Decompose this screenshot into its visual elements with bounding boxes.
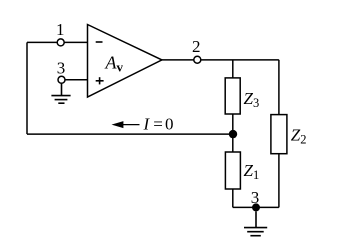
- wire: feedback horizontal wire to junction: [27, 133, 233, 135]
- wire: stub from output wire down to Z3: [232, 60, 234, 78]
- impedance Z2 box: [271, 115, 287, 154]
- node 1 terminal circle: [57, 39, 64, 46]
- svg-text:3: 3: [57, 58, 66, 77]
- impedance Z3 box: [225, 78, 240, 114]
- ground (bottom, under node 3): [244, 211, 267, 235]
- impedance Z1 box: [225, 152, 240, 189]
- wire: output wire from op-amp apex to right branch: [162, 59, 279, 61]
- wire: stub from Z3 through junction to Z1: [232, 114, 234, 152]
- op-amp minus sign: [96, 41, 103, 43]
- wire: bottom wire: [233, 206, 279, 208]
- wire: plus input wire from node 3 to op-amp: [62, 79, 88, 81]
- wire: right branch down to Z2: [278, 60, 280, 115]
- svg-text:2: 2: [192, 37, 201, 56]
- svg-text:3: 3: [251, 188, 260, 207]
- node 3 terminal circle: [58, 76, 65, 83]
- wire: top input wire from left loop to op-amp minus input: [27, 41, 87, 43]
- current arrow I=0: [112, 121, 140, 128]
- wire: stub from Z1 to bottom wire: [232, 189, 234, 207]
- node 2 terminal circle: [194, 56, 201, 63]
- svg-text:0: 0: [165, 114, 174, 133]
- wire: left vertical feedback wire: [26, 42, 28, 134]
- wire: right branch from Z2 to bottom wire: [278, 154, 280, 208]
- svg-text:1: 1: [56, 20, 65, 39]
- op-amp plus sign: [96, 77, 104, 84]
- op-amp Av triangle: [88, 25, 162, 98]
- junction node dot: [229, 130, 237, 138]
- node 3 junction dot (bottom): [252, 203, 260, 211]
- svg-text:=: =: [153, 114, 163, 133]
- ground (left, under node 3): [51, 84, 70, 104]
